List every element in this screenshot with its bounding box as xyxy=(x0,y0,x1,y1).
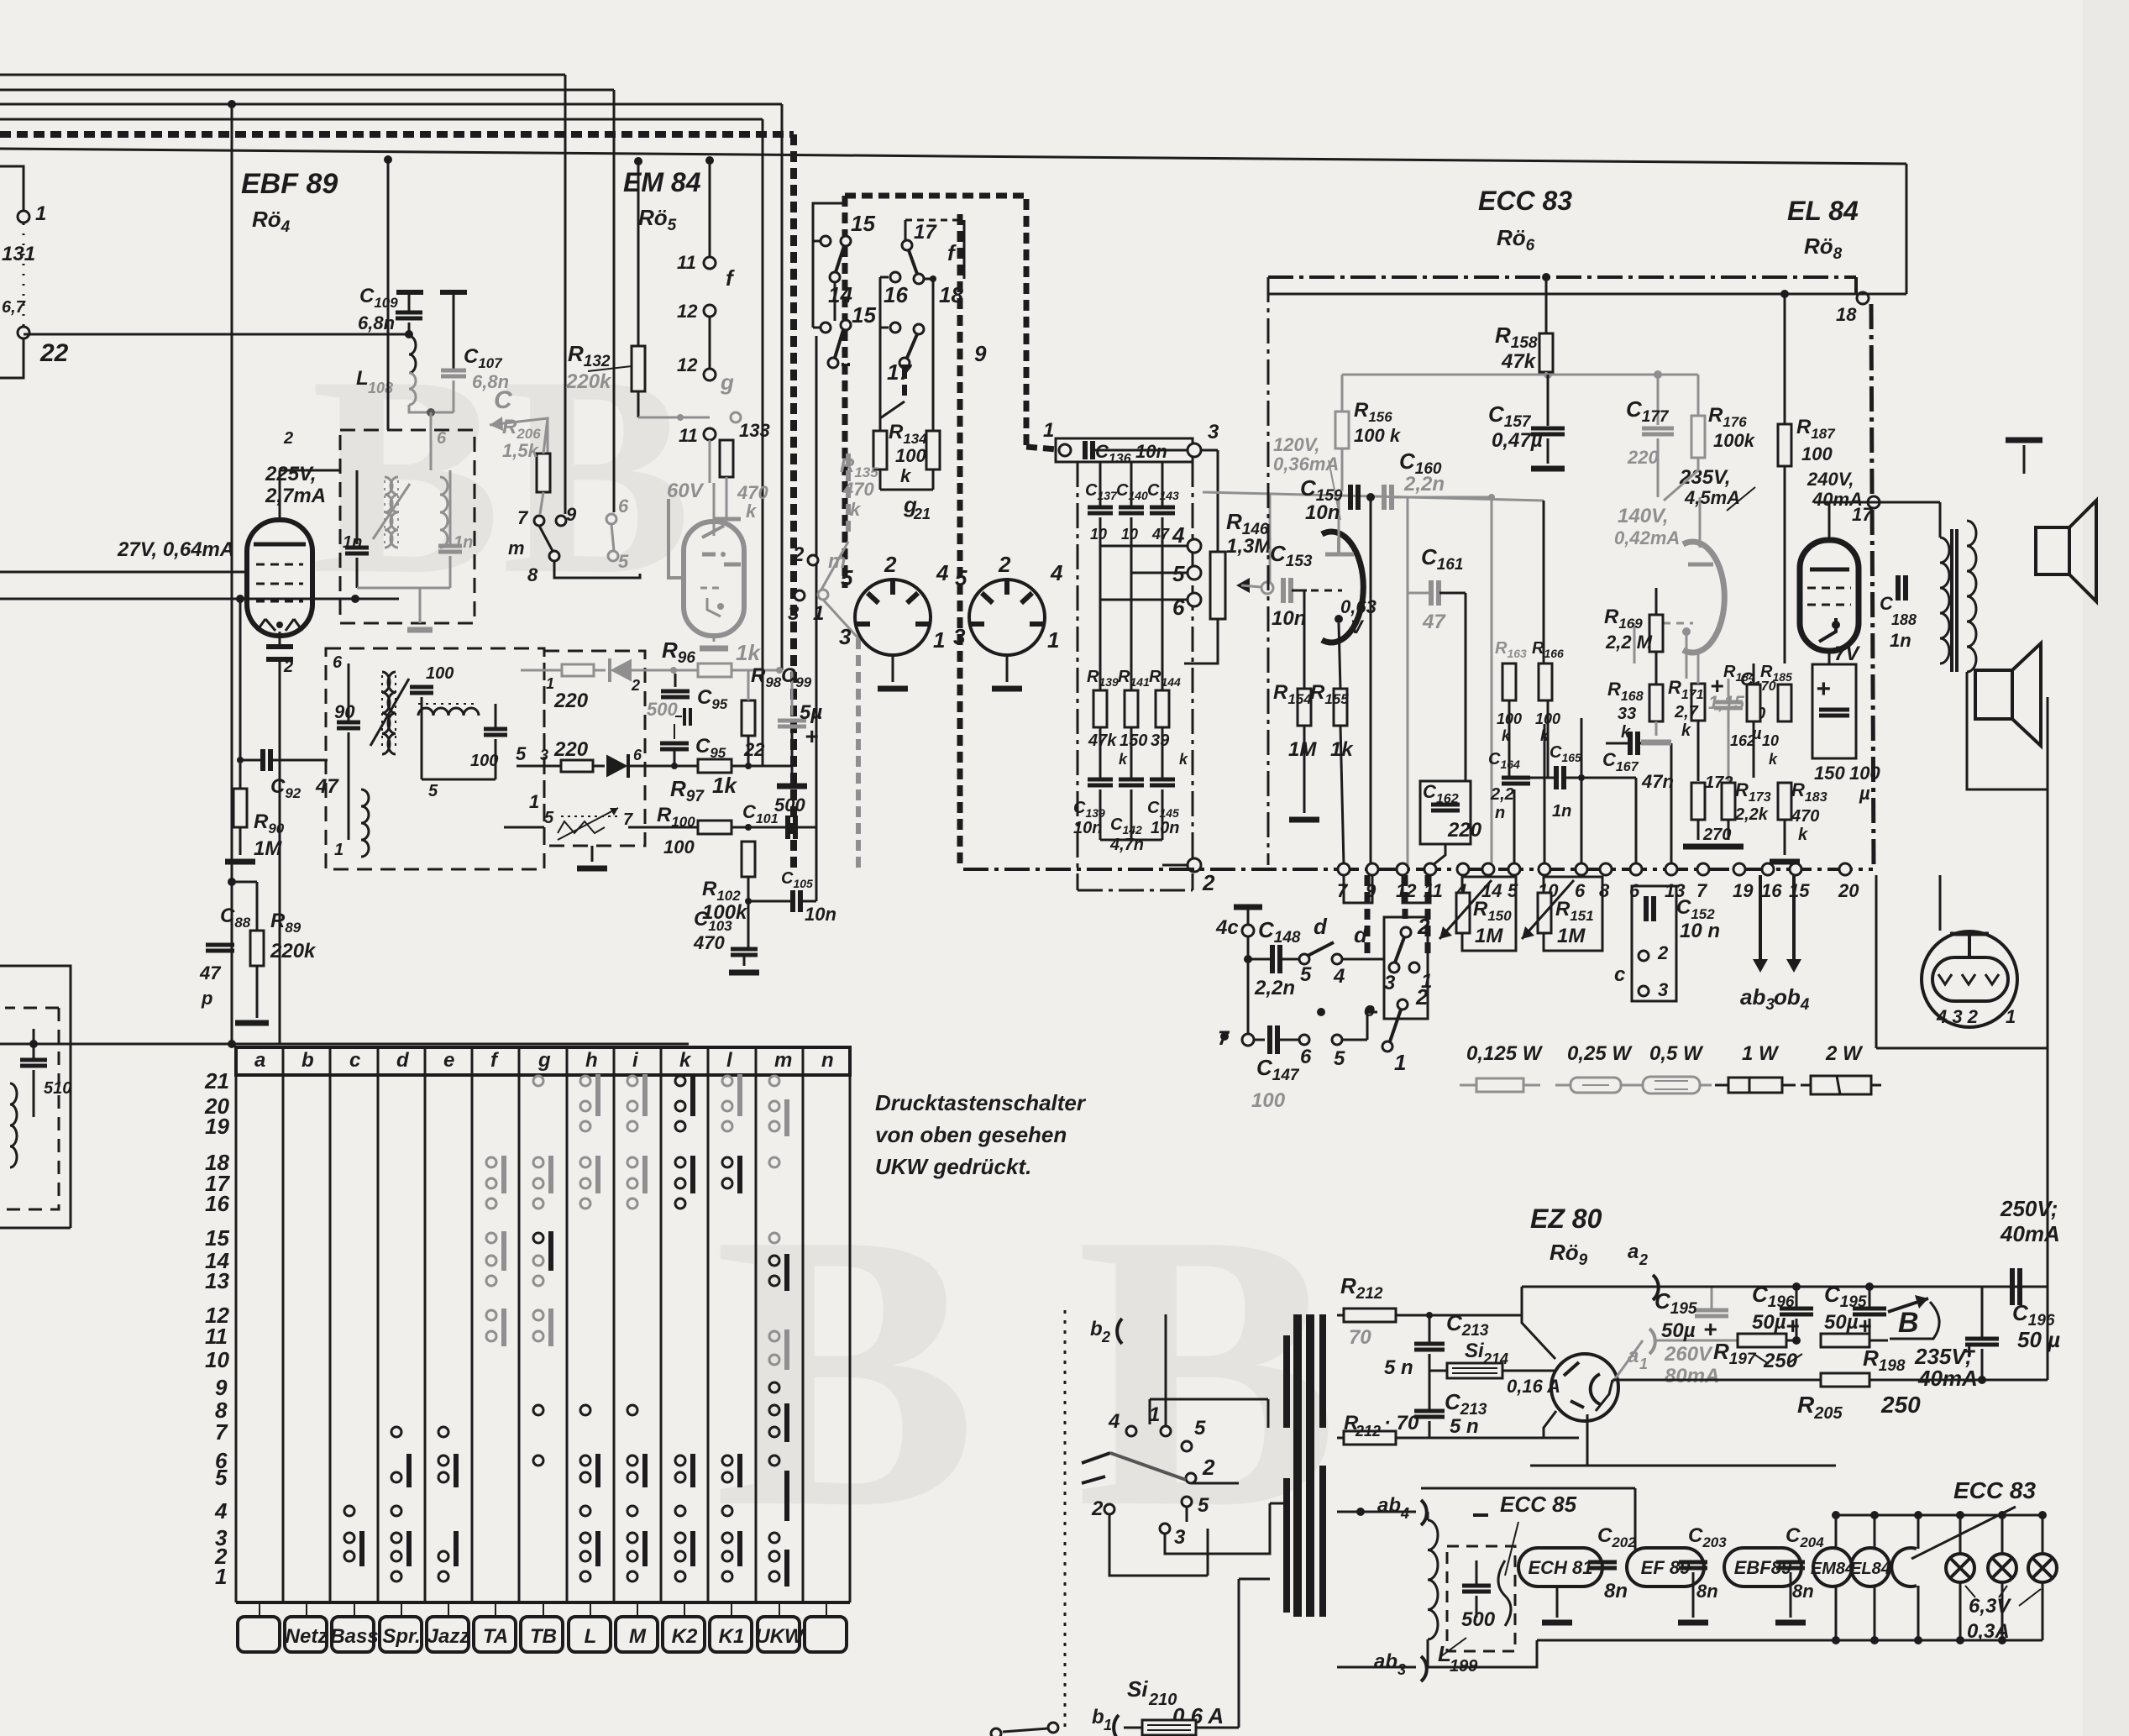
svg-text:2: 2 xyxy=(283,429,293,448)
mains input b1 xyxy=(1048,1723,1058,1733)
svg-text:8n: 8n xyxy=(1604,1580,1628,1602)
svg-text:ECC 85: ECC 85 xyxy=(1500,1492,1577,1517)
svg-text:1: 1 xyxy=(546,675,554,692)
svg-text:250: 250 xyxy=(1880,1392,1921,1418)
svg-text:2,2n: 2,2n xyxy=(1403,473,1445,496)
svg-text:6: 6 xyxy=(633,747,642,763)
svg-text:d: d xyxy=(396,1049,410,1072)
U loops under terminals xyxy=(1344,875,1372,903)
switch box zigzag outer xyxy=(845,196,1026,447)
svg-text:4: 4 xyxy=(1333,965,1345,988)
svg-text:1: 1 xyxy=(2006,1006,2016,1027)
svg-text:22: 22 xyxy=(39,339,69,367)
detector row 2 xyxy=(517,765,561,768)
svg-text:d: d xyxy=(1314,914,1328,939)
transformer core xyxy=(1293,1314,1302,1617)
svg-text:1n: 1n xyxy=(1890,630,1911,651)
contacts g xyxy=(704,369,716,380)
lower right 17 xyxy=(914,324,924,334)
coil L108 xyxy=(409,336,416,373)
svg-text:+: + xyxy=(1710,673,1723,699)
svg-text:1: 1 xyxy=(334,841,343,859)
svg-text:19: 19 xyxy=(205,1114,229,1139)
svg-text:50µ: 50µ xyxy=(1661,1319,1696,1342)
wire bus line 1 xyxy=(0,74,565,76)
svg-text:2: 2 xyxy=(1415,984,1429,1010)
svg-text:10n: 10n xyxy=(1073,819,1102,837)
output transformer xyxy=(1940,538,1949,663)
svg-text:1,3M: 1,3M xyxy=(1226,535,1272,558)
svg-text:10: 10 xyxy=(1090,526,1107,543)
svg-text:19: 19 xyxy=(1733,880,1754,901)
svg-text:b: b xyxy=(1092,1706,1104,1728)
cathode to C186 xyxy=(1828,651,1831,664)
svg-text:4,7n: 4,7n xyxy=(1109,836,1144,854)
C202 8n xyxy=(1588,1560,1617,1565)
svg-text:1M: 1M xyxy=(1288,738,1317,761)
svg-text:EZ 80: EZ 80 xyxy=(1530,1204,1602,1234)
svg-text:214: 214 xyxy=(1482,1351,1508,1367)
svg-text:V: V xyxy=(1350,616,1365,637)
UKW chain bus heavy xyxy=(0,131,794,138)
grey vertical x1676 xyxy=(1407,497,1409,869)
svg-text:250V;: 250V; xyxy=(2000,1196,2058,1221)
sub box 17/f xyxy=(905,219,964,222)
svg-text:TA: TA xyxy=(483,1625,508,1648)
svg-text:+: + xyxy=(805,723,818,749)
R154 1M xyxy=(1298,689,1311,726)
dash-dot left vertical xyxy=(1267,277,1270,865)
svg-text:15: 15 xyxy=(852,302,876,328)
C160 2,2n xyxy=(1382,485,1387,510)
heater bus top xyxy=(1421,1487,1635,1490)
heater box top edge xyxy=(1530,1465,1836,1467)
C95 upper xyxy=(661,690,690,694)
C165 1n xyxy=(1554,766,1559,789)
coil left bottom xyxy=(10,1083,17,1167)
C195 a xyxy=(1695,1309,1728,1313)
grey vertical x1776 xyxy=(1491,497,1493,869)
svg-text:11: 11 xyxy=(205,1324,228,1349)
svg-text:1M: 1M xyxy=(254,837,282,860)
svg-text:188: 188 xyxy=(1891,611,1917,628)
svg-text:6,3V: 6,3V xyxy=(1969,1595,2011,1618)
node wire 9 xyxy=(638,417,710,419)
C136 box xyxy=(1056,438,1193,462)
svg-text:2: 2 xyxy=(283,658,293,676)
svg-text:100 k: 100 k xyxy=(1354,425,1402,446)
socket at 1063 xyxy=(855,580,931,655)
svg-text:100k: 100k xyxy=(1713,430,1756,451)
svg-text:1,5k: 1,5k xyxy=(502,440,540,461)
svg-text:n: n xyxy=(821,1049,834,1072)
top ground stub xyxy=(2023,445,2026,474)
svg-text:0,5 W: 0,5 W xyxy=(1649,1042,1704,1065)
svg-text:5 n: 5 n xyxy=(1384,1356,1413,1379)
svg-text:4: 4 xyxy=(1108,1410,1120,1433)
R183 470k xyxy=(1778,783,1791,820)
svg-text:ECC 83: ECC 83 xyxy=(1953,1477,2036,1503)
svg-text:510: 510 xyxy=(44,1079,71,1098)
verticals to terminals xyxy=(1487,778,1489,869)
svg-text:5: 5 xyxy=(428,782,438,800)
EBF89 cathode drop xyxy=(279,662,281,1044)
svg-text:100: 100 xyxy=(426,664,454,683)
dash-dot tone box xyxy=(1077,462,1079,890)
terminal 5 xyxy=(1508,863,1520,875)
middle column 16 xyxy=(879,277,882,431)
svg-text:133: 133 xyxy=(739,420,770,441)
svg-text:500: 500 xyxy=(1461,1608,1496,1631)
C213 5n bottom xyxy=(1414,1409,1445,1413)
svg-text:131: 131 xyxy=(2,243,35,265)
svg-text:47k: 47k xyxy=(1088,732,1117,750)
svg-text:5: 5 xyxy=(955,565,967,590)
svg-text:21: 21 xyxy=(204,1068,229,1094)
R100 100 xyxy=(504,826,544,829)
svg-text:5: 5 xyxy=(1198,1494,1209,1517)
svg-text:m: m xyxy=(774,1049,792,1072)
terminal 6 xyxy=(1630,863,1642,875)
svg-text:2: 2 xyxy=(998,552,1011,577)
IF transformer box 2 xyxy=(326,648,544,869)
C188 1n xyxy=(1896,575,1901,601)
plate feed wire to IF box xyxy=(384,155,392,164)
svg-text:2: 2 xyxy=(792,543,805,566)
svg-text:6: 6 xyxy=(1575,880,1586,901)
svg-text:1: 1 xyxy=(1639,1356,1648,1372)
contacts f xyxy=(704,257,716,269)
tubes EM84 EL84 heater xyxy=(1813,1548,1852,1587)
wire vertical x276 xyxy=(231,104,233,1044)
terminal 15 xyxy=(1790,863,1801,875)
inner zigzag column xyxy=(957,214,963,869)
pot R146 1,3M xyxy=(1210,552,1225,619)
svg-text:K2: K2 xyxy=(672,1625,698,1648)
svg-text:199: 199 xyxy=(1450,1657,1478,1676)
svg-text:33: 33 xyxy=(1618,705,1636,723)
svg-text:2: 2 xyxy=(1202,1455,1215,1480)
svg-text:k: k xyxy=(1681,721,1691,740)
svg-text:11: 11 xyxy=(677,252,696,273)
cap C88 47p xyxy=(228,878,236,886)
svg-text:7: 7 xyxy=(215,1419,228,1445)
C99 5µ xyxy=(778,719,806,723)
svg-text:a: a xyxy=(1628,1345,1639,1367)
svg-text:2: 2 xyxy=(1202,870,1215,895)
C195 b xyxy=(1853,1307,1886,1311)
svg-text:2: 2 xyxy=(1101,1329,1110,1345)
contact 17 on dashdot xyxy=(1868,496,1880,508)
cap C137 xyxy=(1099,462,1102,507)
svg-text:7V: 7V xyxy=(1834,642,1860,665)
R171 2,7k xyxy=(1691,684,1705,721)
svg-text:ab: ab xyxy=(1374,1650,1397,1673)
table bottom labels xyxy=(238,1617,280,1652)
svg-text:4: 4 xyxy=(1400,1505,1409,1522)
svg-text:2,2 M: 2,2 M xyxy=(1605,632,1653,653)
svg-text:12: 12 xyxy=(677,354,698,375)
lamp at 2334 xyxy=(1959,1515,1962,1554)
svg-text:7: 7 xyxy=(517,507,529,528)
wiper arrow xyxy=(1236,578,1250,593)
svg-text:m: m xyxy=(508,538,525,559)
svg-text:40mA: 40mA xyxy=(1917,1366,1978,1391)
svg-text:40mA: 40mA xyxy=(2000,1221,2060,1246)
wire bus line 4 xyxy=(0,118,763,121)
chain vertical x945 xyxy=(790,134,797,869)
svg-text:140V,: 140V, xyxy=(1618,505,1669,527)
R132 220k xyxy=(632,346,645,391)
wire grey x931 down xyxy=(781,669,783,671)
svg-text:2: 2 xyxy=(884,552,897,577)
terminal 19 xyxy=(1733,863,1745,875)
svg-text:90: 90 xyxy=(334,701,355,722)
svg-text:0,25 W: 0,25 W xyxy=(1567,1042,1633,1065)
grid wire xyxy=(0,571,248,574)
svg-text:e: e xyxy=(443,1049,454,1072)
cap C140 xyxy=(1130,462,1133,507)
solid line y350 xyxy=(1268,293,1906,296)
tube EL84 envelope xyxy=(1800,540,1859,651)
svg-text:a: a xyxy=(254,1049,265,1072)
svg-text:2,7: 2,7 xyxy=(1674,703,1699,721)
resistor R144 xyxy=(1156,690,1169,727)
svg-text:+: + xyxy=(1962,1338,1975,1364)
heater bottom rail xyxy=(1537,1639,2042,1642)
svg-text:2: 2 xyxy=(1639,1251,1648,1268)
svg-text:1: 1 xyxy=(1394,1050,1406,1075)
terminal 10 xyxy=(1539,863,1550,875)
svg-text:10n: 10n xyxy=(1151,819,1179,837)
svg-text:L: L xyxy=(356,367,369,390)
svg-text:10n: 10n xyxy=(805,904,836,925)
svg-text:60V: 60V xyxy=(667,480,705,502)
svg-text:13: 13 xyxy=(205,1268,229,1293)
svg-text:500: 500 xyxy=(647,699,678,720)
svg-text:1 W: 1 W xyxy=(1742,1042,1780,1065)
R133 470k xyxy=(720,440,733,477)
svg-text:47: 47 xyxy=(315,775,339,798)
R205 250 xyxy=(1612,1379,2048,1382)
R134 100k twin xyxy=(873,431,887,469)
svg-text:k: k xyxy=(1769,751,1778,768)
svg-text:162: 162 xyxy=(1730,732,1755,749)
speaker 1 xyxy=(2036,527,2069,574)
speaker wiring xyxy=(1967,672,2048,789)
wire 22 to L108 xyxy=(24,333,409,336)
wire vertical x972 xyxy=(815,336,818,901)
svg-text:2,2n: 2,2n xyxy=(1254,977,1295,999)
R102 100k xyxy=(742,842,755,877)
svg-text:3: 3 xyxy=(1384,972,1396,994)
svg-text:240V,: 240V, xyxy=(1807,469,1854,490)
svg-text:220: 220 xyxy=(553,738,589,761)
svg-text:4: 4 xyxy=(214,1498,228,1524)
svg-text:1n: 1n xyxy=(454,533,473,552)
tube EBF89 envelope xyxy=(247,520,312,636)
svg-text:1k: 1k xyxy=(736,640,761,665)
svg-text:4,5mA: 4,5mA xyxy=(1684,487,1740,508)
tube EBF89 heater xyxy=(1724,1548,1801,1587)
R97 1k xyxy=(698,759,732,773)
svg-text:15: 15 xyxy=(1789,880,1810,901)
R212-70 bottom xyxy=(1344,1431,1396,1445)
R166 100k xyxy=(1539,663,1552,700)
speaker socket circle xyxy=(1875,875,1878,1048)
svg-text:c: c xyxy=(1614,963,1625,986)
R187 100 xyxy=(1778,424,1791,466)
svg-text:5: 5 xyxy=(1334,1047,1345,1070)
svg-text:Spr.: Spr. xyxy=(382,1625,420,1648)
svg-text:d: d xyxy=(1354,922,1368,947)
svg-text:235V,: 235V, xyxy=(1679,466,1731,489)
tube ECC83 triode b xyxy=(1683,542,1724,653)
R96 1k xyxy=(698,663,732,677)
terminal 4 xyxy=(1457,863,1469,875)
svg-text:5: 5 xyxy=(516,743,527,764)
svg-text:150: 150 xyxy=(1814,763,1845,784)
svg-text:260V: 260V xyxy=(1664,1343,1713,1366)
cap C109 6,8n xyxy=(396,290,423,295)
svg-text:17: 17 xyxy=(1852,504,1874,525)
wire bus line 2 xyxy=(0,89,614,92)
detector row 1 (grey) xyxy=(521,669,562,672)
black vertical x1841 xyxy=(1543,501,1545,663)
svg-text:4 3 2: 4 3 2 xyxy=(1936,1006,1979,1027)
switch contacts mains xyxy=(1126,1426,1136,1436)
R169 2,2M xyxy=(1649,615,1663,652)
left lead loop xyxy=(813,203,845,328)
svg-text:18: 18 xyxy=(939,282,963,307)
grey feed wire xyxy=(1203,492,1544,501)
svg-text:27V, 0,64mA: 27V, 0,64mA xyxy=(117,538,234,561)
grey chain vertical xyxy=(856,638,861,869)
svg-text:50µ: 50µ xyxy=(1752,1311,1786,1334)
svg-text:p: p xyxy=(201,988,212,1009)
terminal 20 xyxy=(1839,863,1851,875)
svg-text:n: n xyxy=(1495,804,1505,822)
svg-text:2: 2 xyxy=(1417,914,1430,939)
grey supply rail xyxy=(1342,374,1698,376)
wire vertical x673 xyxy=(564,75,567,514)
C204 8n xyxy=(1776,1560,1805,1565)
R158 47k xyxy=(1539,333,1553,372)
svg-text:3: 3 xyxy=(788,602,800,625)
switch m contacts EBF area xyxy=(534,516,544,526)
EZ80 tube circle xyxy=(1551,1354,1618,1421)
svg-text:UKW gedrückt.: UKW gedrückt. xyxy=(875,1154,1031,1179)
fuse Si210 xyxy=(1142,1720,1196,1735)
pushbutton table frame xyxy=(236,1047,850,1075)
R172 270 xyxy=(1691,783,1705,820)
vertical x1745 to C162 xyxy=(1465,593,1467,781)
svg-text:17: 17 xyxy=(887,359,912,385)
svg-text:220: 220 xyxy=(553,690,589,712)
svg-text:10n: 10n xyxy=(1305,501,1340,524)
svg-text:EM 84: EM 84 xyxy=(623,167,701,197)
svg-text:220: 220 xyxy=(1627,447,1659,468)
dashed box 500 xyxy=(1447,1546,1515,1651)
terminal 12 xyxy=(1397,863,1408,875)
wire vertical x908 xyxy=(762,119,764,766)
svg-text:39: 39 xyxy=(1151,732,1170,750)
tube EM84 envelope xyxy=(669,499,684,578)
R98 22k xyxy=(742,700,755,736)
svg-text:+: + xyxy=(1816,675,1831,703)
cathode wire xyxy=(0,598,399,601)
C196 50µ xyxy=(1792,1282,1801,1291)
terminal 7 xyxy=(1697,863,1709,875)
terminal 13 xyxy=(1665,863,1677,875)
svg-text:22: 22 xyxy=(743,739,765,760)
svg-text:1M: 1M xyxy=(1475,925,1503,947)
svg-text:47: 47 xyxy=(199,962,222,983)
svg-text:8n: 8n xyxy=(1792,1581,1814,1602)
svg-text:6: 6 xyxy=(437,429,447,448)
fuse Si214 xyxy=(1447,1363,1502,1378)
terminal 14 xyxy=(1482,863,1494,875)
svg-text:1k: 1k xyxy=(712,773,737,798)
svg-text:15: 15 xyxy=(205,1225,229,1251)
svg-text:270: 270 xyxy=(1702,826,1731,844)
lamp at 2384 xyxy=(2001,1515,2004,1554)
svg-text:UKW: UKW xyxy=(755,1625,805,1648)
svg-text:c: c xyxy=(349,1049,360,1072)
svg-text:5: 5 xyxy=(215,1465,228,1490)
a1 wire xyxy=(1612,1340,1643,1382)
svg-text:2: 2 xyxy=(631,677,640,694)
svg-text:100: 100 xyxy=(1251,1089,1286,1112)
svg-text:8: 8 xyxy=(1599,880,1610,901)
EZ80 plate wire a2 xyxy=(1522,1287,1555,1359)
svg-text:M: M xyxy=(629,1625,647,1648)
svg-text:5: 5 xyxy=(544,809,554,827)
R173 2,2k xyxy=(1722,783,1735,820)
svg-text:ECC 83: ECC 83 xyxy=(1478,186,1572,216)
ground ECH81 xyxy=(1556,1587,1559,1618)
svg-text:120V,: 120V, xyxy=(1273,434,1319,455)
svg-text:EL84: EL84 xyxy=(1850,1560,1890,1578)
svg-text:8n: 8n xyxy=(1696,1581,1718,1602)
svg-text:4: 4 xyxy=(1050,560,1063,585)
svg-text:k: k xyxy=(1621,723,1631,742)
svg-text:9: 9 xyxy=(566,504,577,525)
resistor R141 xyxy=(1125,690,1138,727)
socket at 1199 xyxy=(969,580,1045,655)
e lever xyxy=(1397,999,1408,1010)
svg-text:100: 100 xyxy=(1849,763,1880,784)
svg-text:g: g xyxy=(537,1049,551,1072)
svg-text:2: 2 xyxy=(1091,1497,1104,1520)
svg-text:4c: 4c xyxy=(1215,916,1239,939)
svg-text:EBF 89: EBF 89 xyxy=(241,168,338,200)
C203 8n xyxy=(1679,1560,1707,1565)
cathode 1,15V xyxy=(1686,632,1688,679)
C195 right xyxy=(1965,1337,1999,1341)
tube ECH81 heater xyxy=(1518,1548,1602,1587)
svg-text:3: 3 xyxy=(1174,1526,1186,1549)
speaker 2 xyxy=(1975,670,2012,719)
svg-text:C: C xyxy=(494,386,513,414)
svg-text:5: 5 xyxy=(1194,1417,1206,1440)
svg-text:EM84: EM84 xyxy=(1811,1560,1854,1578)
svg-text:k: k xyxy=(746,501,758,522)
R206 1,5k xyxy=(537,454,550,492)
svg-text:3: 3 xyxy=(540,747,548,763)
svg-text:6,7: 6,7 xyxy=(2,298,26,317)
svg-text:220k: 220k xyxy=(270,940,317,962)
